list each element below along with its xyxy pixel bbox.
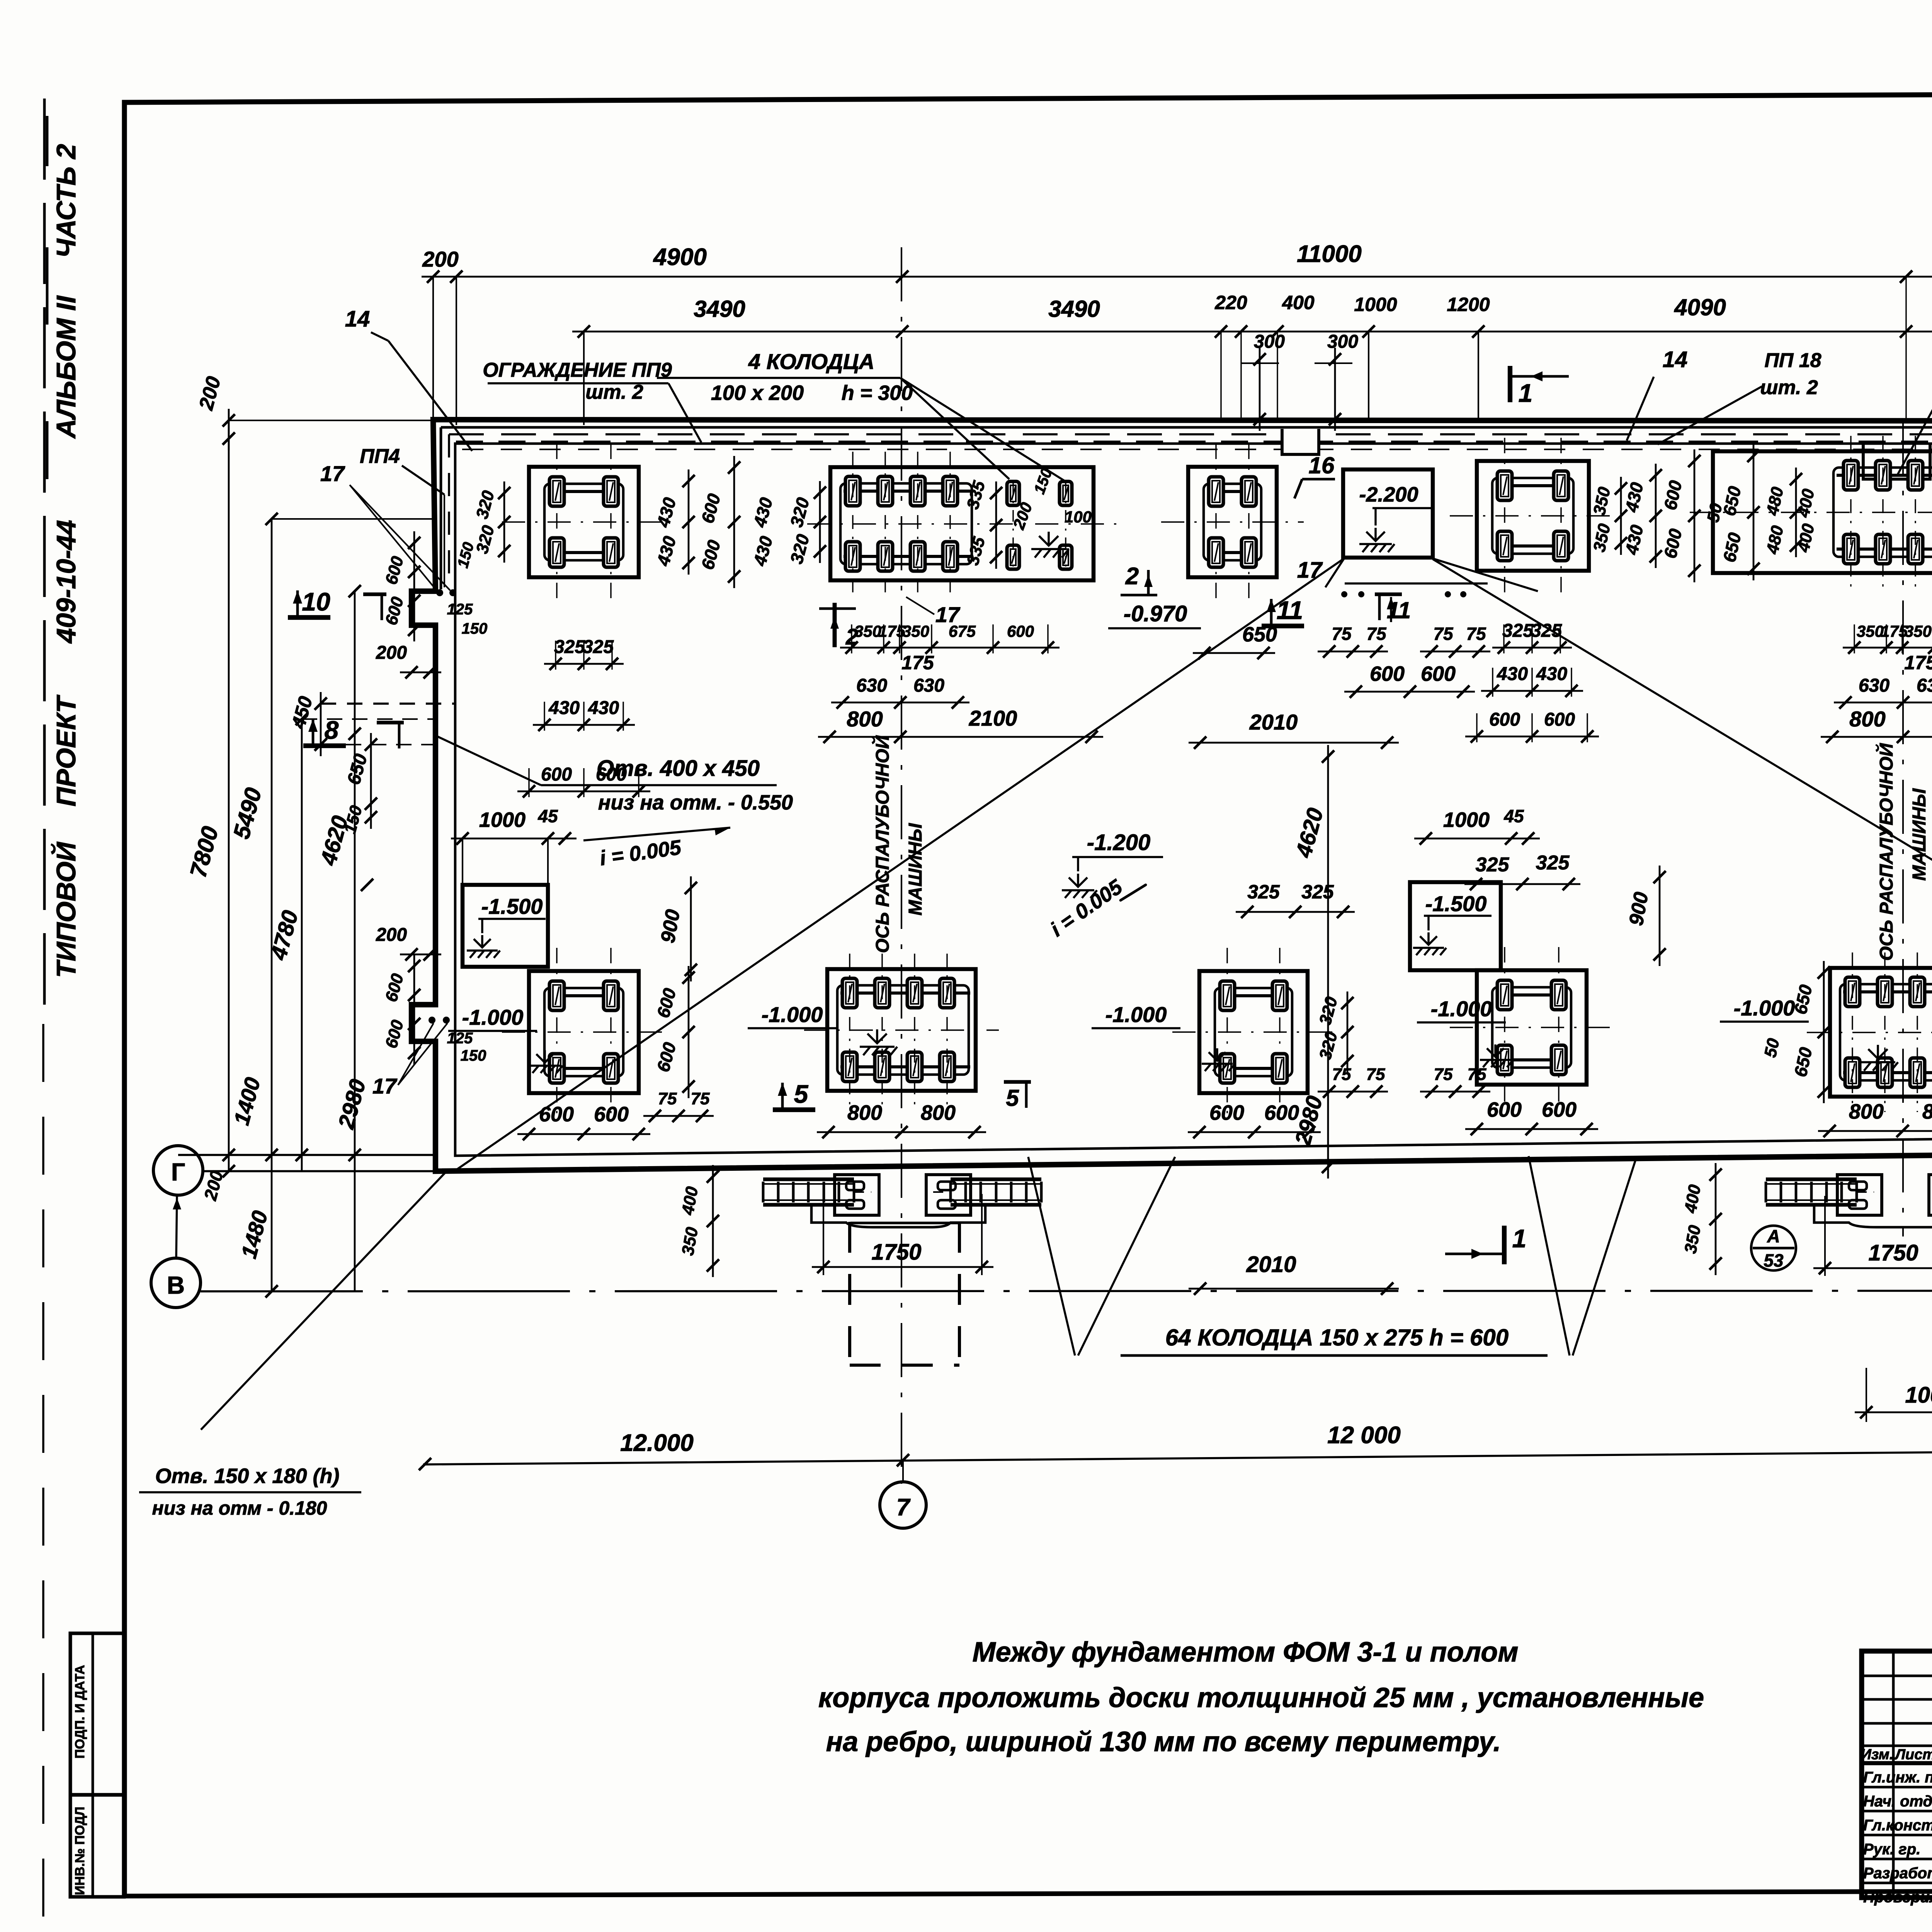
svg-text:75: 75 [1332, 624, 1352, 644]
foundation block B5 bottom row [1830, 968, 1932, 1097]
svg-text:ПП4: ПП4 [360, 445, 400, 468]
svg-text:ОГРАЖДЕНИЕ ПП9: ОГРАЖДЕНИЕ ПП9 [483, 359, 672, 381]
sheet left page edge line [43, 99, 46, 1005]
svg-text:5: 5 [1006, 1085, 1019, 1111]
svg-text:600: 600 [539, 1103, 574, 1126]
left dim 200 top corner [229, 420, 433, 421]
svg-text:-2.200: -2.200 [1359, 483, 1418, 506]
svg-text:75: 75 [658, 1089, 677, 1108]
svg-text:14: 14 [1663, 347, 1688, 372]
svg-text:ПРОЕКТ: ПРОЕКТ [51, 694, 81, 806]
inner wall line [455, 444, 1932, 1156]
svg-text:-0.970: -0.970 [1124, 601, 1187, 626]
title block outer frame [1862, 1651, 1932, 1898]
section pair 5 [773, 1107, 815, 1112]
svg-text:12 000: 12 000 [1327, 1422, 1401, 1449]
svg-text:1000: 1000 [1443, 808, 1490, 832]
svg-text:16: 16 [1309, 452, 1335, 478]
svg-text:800: 800 [1849, 707, 1885, 731]
section mark 1 top [1508, 366, 1512, 402]
svg-text:45: 45 [1503, 806, 1524, 826]
svg-text:325: 325 [1476, 854, 1510, 876]
svg-text:В: В [167, 1271, 185, 1299]
section pair 10 [288, 615, 330, 620]
svg-text:75: 75 [1434, 1065, 1453, 1084]
svg-text:325: 325 [583, 637, 614, 657]
svg-text:175: 175 [1904, 652, 1932, 673]
svg-text:75: 75 [1433, 624, 1454, 644]
svg-text:800: 800 [1922, 1100, 1932, 1123]
svg-text:МАШИНЫ: МАШИНЫ [1909, 788, 1930, 881]
svg-text:17: 17 [372, 1074, 398, 1098]
section pair 8 left [303, 743, 346, 748]
foundation block B1 bottom row [529, 971, 639, 1093]
svg-text:220: 220 [1214, 292, 1247, 313]
svg-text:Проверил: Проверил [1863, 1889, 1932, 1906]
left stamp boxes Подп. и дата / Инв.№ подл [70, 1633, 124, 1897]
foundation block C5 top row wide [1713, 451, 1932, 573]
svg-text:4090: 4090 [1674, 294, 1726, 320]
svg-text:75: 75 [1366, 624, 1387, 644]
svg-text:350: 350 [854, 622, 881, 640]
svg-text:325: 325 [1247, 881, 1280, 903]
svg-text:75: 75 [1468, 1065, 1486, 1084]
foundation block C2 top row wide [830, 467, 1094, 580]
foundation slab outer wall outline [412, 420, 1932, 1171]
center dim line vertical 4620/2980 [1327, 745, 1329, 1179]
svg-text:низ на отм. - 0.550: низ на отм. - 0.550 [598, 791, 793, 814]
border bottom edge [124, 1889, 1932, 1896]
svg-text:ПОДП. И ДАТА: ПОДП. И ДАТА [73, 1665, 87, 1759]
svg-text:75: 75 [1332, 1065, 1351, 1084]
svg-text:корпуса проложить доски тол: корпуса проложить доски толщинной 25 мм … [818, 1682, 1704, 1713]
svg-text:-1.000: -1.000 [462, 1005, 524, 1029]
svg-text:175: 175 [901, 652, 934, 673]
svg-text:Нач. отд.: Нач. отд. [1863, 1793, 1932, 1810]
wall niche dots left top [436, 589, 443, 596]
svg-text:Г: Г [171, 1158, 185, 1186]
svg-text:АЛЬБОМ II: АЛЬБОМ II [51, 295, 81, 439]
svg-text:325: 325 [1301, 881, 1334, 903]
svg-text:2010: 2010 [1249, 710, 1298, 734]
callout V leader right [1529, 1156, 1570, 1355]
svg-text:2: 2 [1125, 563, 1139, 590]
section mark 1 bottom [1502, 1226, 1507, 1264]
conveyor chains under machine axis right [1766, 1177, 1857, 1181]
top dimension row 3: 300 300 [1259, 348, 1261, 431]
svg-text:600: 600 [541, 764, 572, 785]
svg-text:630: 630 [1859, 675, 1889, 696]
svg-text:Гл.инж. пр: Гл.инж. пр [1863, 1769, 1932, 1786]
svg-text:4 КОЛОДЦА: 4 КОЛОДЦА [748, 349, 874, 374]
svg-text:ПП 18: ПП 18 [1764, 349, 1821, 372]
diagonal leader pit to bottom-right corner [1433, 559, 1932, 1143]
svg-text:800: 800 [921, 1101, 956, 1124]
svg-text:800: 800 [847, 707, 883, 731]
level mark in B2 [860, 1029, 897, 1055]
svg-text:175: 175 [878, 622, 906, 640]
pit -1.500 bottom right [1410, 882, 1501, 970]
svg-text:675: 675 [949, 622, 976, 640]
axis circle 7 [880, 1482, 926, 1528]
bottom dim row 12.000 x3 [423, 1448, 1932, 1464]
svg-text:800: 800 [1849, 1100, 1884, 1123]
conveyor chains under axis 7 [763, 1177, 854, 1181]
svg-text:325: 325 [1502, 621, 1534, 641]
foundation block C1 top row [529, 467, 639, 577]
dim 1000 at axis 9 [1855, 1412, 1932, 1413]
svg-text:ТИПОВОЙ: ТИПОВОЙ [50, 842, 81, 978]
left dim vertical 4620 [354, 591, 356, 1291]
svg-text:1200: 1200 [1447, 294, 1490, 315]
svg-text:600: 600 [1542, 1098, 1577, 1121]
svg-text:низ на отм - 0.180: низ на отм - 0.180 [152, 1497, 327, 1519]
svg-text:12.000: 12.000 [620, 1430, 694, 1456]
svg-text:1750: 1750 [1868, 1240, 1918, 1265]
svg-text:Гл.конст.пр: Гл.конст.пр [1863, 1817, 1932, 1834]
svg-text:325: 325 [1536, 852, 1570, 874]
svg-text:630: 630 [1917, 675, 1932, 696]
svg-text:175: 175 [1881, 622, 1908, 640]
column axis 7 vertical line [901, 247, 902, 1484]
callout V leader left [1028, 1157, 1075, 1355]
svg-text:Между фундаментом ФОМ: Между фундаментом ФОМ 3-1 и полом [972, 1637, 1518, 1668]
diagonal leader to hole note bottom-left [201, 1173, 445, 1430]
svg-text:650: 650 [1242, 623, 1277, 646]
svg-text:ОСЬ РАСПАЛУБОЧНОЙ: ОСЬ РАСПАЛУБОЧНОЙ [1876, 743, 1897, 961]
svg-text:600: 600 [1489, 709, 1520, 730]
section pair 11 [1262, 624, 1304, 628]
svg-text:-1.000: -1.000 [762, 1002, 823, 1027]
svg-text:630: 630 [856, 675, 887, 696]
svg-text:-1.500: -1.500 [481, 894, 543, 918]
svg-text:430: 430 [1536, 664, 1567, 684]
axis circle Г [153, 1146, 203, 1195]
svg-text:ОСЬ РАСПАЛУБОЧНОЙ: ОСЬ РАСПАЛУБОЧНОЙ [872, 735, 893, 953]
svg-text:75: 75 [1366, 1065, 1385, 1084]
svg-text:Рук. гр.: Рук. гр. [1863, 1841, 1920, 1858]
svg-text:64 КОЛОДЦА 150 х 275 h =: 64 КОЛОДЦА 150 х 275 h = 600 [1165, 1325, 1509, 1350]
svg-text:МАШИНЫ: МАШИНЫ [905, 823, 926, 916]
svg-text:300: 300 [1327, 332, 1358, 352]
foundation block C3 top row [1188, 467, 1277, 577]
svg-text:600: 600 [1209, 1101, 1244, 1124]
dim 1750 under left conveyor [812, 1266, 993, 1268]
link line Г to B [176, 1195, 177, 1258]
pit -2.200 top center [1343, 469, 1433, 558]
pit -1.500 bottom left [463, 885, 548, 967]
svg-text:430: 430 [1497, 664, 1528, 684]
pocket in top wall right half [1863, 444, 1930, 479]
top wall second line [441, 426, 1932, 429]
svg-text:430: 430 [548, 698, 580, 718]
svg-text:600: 600 [1007, 622, 1034, 640]
svg-text:350: 350 [1905, 622, 1932, 640]
svg-text:шт. 2: шт. 2 [1760, 376, 1818, 399]
svg-text:10: 10 [302, 587, 330, 616]
svg-text:350: 350 [902, 622, 929, 640]
svg-text:1000: 1000 [479, 808, 526, 832]
svg-text:11000: 11000 [1297, 241, 1362, 267]
svg-text:350: 350 [1857, 622, 1884, 640]
svg-text:17: 17 [1297, 558, 1323, 583]
svg-text:100 х 200: 100 х 200 [711, 381, 804, 405]
svg-text:-1.000: -1.000 [1105, 1002, 1167, 1027]
svg-text:200: 200 [422, 247, 458, 271]
svg-text:125: 125 [447, 1030, 473, 1047]
svg-text:3490: 3490 [694, 296, 745, 322]
foundation block B3 bottom row [1199, 971, 1308, 1093]
svg-text:600: 600 [1421, 662, 1456, 685]
section mark 2 with -0.970 [833, 603, 837, 647]
svg-text:75: 75 [691, 1089, 710, 1108]
svg-text:7: 7 [896, 1494, 911, 1521]
svg-text:150: 150 [461, 1047, 486, 1064]
svg-text:17: 17 [320, 461, 345, 486]
svg-text:шт. 2: шт. 2 [585, 381, 643, 403]
foundation block B2 bottom row [827, 969, 976, 1091]
svg-text:ЧАСТЬ 2: ЧАСТЬ 2 [51, 144, 81, 258]
left wall opening dashes 400x450 [321, 702, 455, 704]
svg-text:409-10-44: 409-10-44 [51, 520, 81, 644]
detail circle A/53 [1751, 1226, 1796, 1270]
svg-text:325: 325 [1531, 621, 1562, 641]
svg-text:200: 200 [376, 925, 407, 945]
svg-text:4900: 4900 [653, 244, 707, 270]
level mark in B5 [1861, 1045, 1898, 1071]
svg-text:2010: 2010 [1246, 1252, 1296, 1277]
foundation block C4 top row [1477, 461, 1589, 571]
machine axis right vertical [1902, 421, 1904, 1236]
svg-text:400: 400 [1282, 292, 1315, 313]
svg-text:Отв. 400 х 450: Отв. 400 х 450 [597, 756, 760, 781]
svg-text:Лист: Лист [1894, 1747, 1932, 1763]
svg-text:150: 150 [462, 620, 488, 637]
svg-text:Отв. 150 х 180 (h): Отв. 150 х 180 (h) [155, 1464, 340, 1488]
svg-text:45: 45 [537, 806, 558, 826]
svg-text:600: 600 [594, 1103, 629, 1126]
svg-text:ИНВ.№ ПОДЛ: ИНВ.№ ПОДЛ [73, 1807, 87, 1895]
dim 2010 under left conveyor [1189, 1288, 1399, 1290]
svg-text:5: 5 [794, 1080, 809, 1108]
svg-text:3490: 3490 [1048, 296, 1100, 322]
svg-text:1750: 1750 [871, 1240, 921, 1265]
svg-text:600: 600 [1487, 1098, 1522, 1121]
svg-text:1: 1 [1512, 1224, 1527, 1253]
svg-text:125: 125 [447, 601, 473, 618]
svg-text:-1.000: -1.000 [1734, 996, 1795, 1020]
svg-text:100: 100 [1065, 508, 1092, 526]
left dim vertical 5490 [271, 519, 273, 1291]
top dimension row 1: 200 4900 11000 5300 200 [422, 276, 1932, 278]
title block revision table [1862, 1675, 1932, 1677]
svg-text:1000: 1000 [1905, 1383, 1932, 1408]
level mark in B1 [529, 1050, 563, 1073]
svg-text:75: 75 [1466, 624, 1486, 644]
svg-text:53: 53 [1764, 1250, 1784, 1270]
level mark in B3 [1202, 1048, 1235, 1071]
pit leaders under -2.200 [1325, 558, 1345, 587]
wall niche dots left bottom [429, 1017, 435, 1024]
top dimension row 2: 3490 3490 220 400 1000 1200 4090 4090 [572, 331, 1932, 333]
foundation block B4 bottom row [1477, 970, 1587, 1085]
svg-text:-1.500: -1.500 [1425, 891, 1487, 916]
svg-text:-1.000: -1.000 [1431, 997, 1492, 1021]
svg-text:Изм.: Изм. [1861, 1747, 1894, 1763]
svg-text:1: 1 [1519, 379, 1533, 407]
svg-text:h = 300: h = 300 [842, 381, 913, 405]
svg-text:325: 325 [554, 637, 585, 657]
svg-text:200: 200 [376, 643, 407, 663]
svg-text:300: 300 [1254, 332, 1285, 352]
svg-text:600: 600 [1370, 662, 1405, 685]
diagonal leader bottom-left corner to pit [452, 559, 1343, 1173]
opening 16 notch in top wall [1282, 429, 1319, 454]
axis B dash-dot line [201, 1291, 1932, 1291]
dashed pit under left conveyor [848, 1222, 851, 1365]
axis Г horizontal line [178, 1154, 433, 1156]
svg-text:600: 600 [1544, 709, 1575, 730]
svg-text:11: 11 [1277, 596, 1303, 624]
axis circle B [151, 1258, 201, 1308]
svg-text:2100: 2100 [969, 706, 1017, 730]
svg-text:14: 14 [345, 306, 370, 332]
left dim vertical 4780 [301, 719, 303, 1171]
svg-text:600: 600 [1264, 1101, 1299, 1124]
dim 1750 under right conveyor [1813, 1267, 1932, 1269]
svg-text:А: А [1767, 1226, 1780, 1246]
level mark in B4 [1480, 1044, 1513, 1067]
svg-text:Разработ.: Разработ. [1863, 1865, 1932, 1882]
perimeter guard dashed lines (ограждение) [449, 433, 1932, 435]
svg-text:430: 430 [588, 698, 619, 718]
svg-text:1000: 1000 [1354, 294, 1397, 315]
svg-text:-1.200: -1.200 [1087, 830, 1150, 855]
left dim vertical 7800 [228, 420, 230, 1171]
svg-text:на ребро, шириной 130 мм: на ребро, шириной 130 мм по всему периме… [826, 1726, 1501, 1757]
svg-text:630: 630 [913, 675, 944, 696]
svg-text:800: 800 [847, 1101, 882, 1124]
